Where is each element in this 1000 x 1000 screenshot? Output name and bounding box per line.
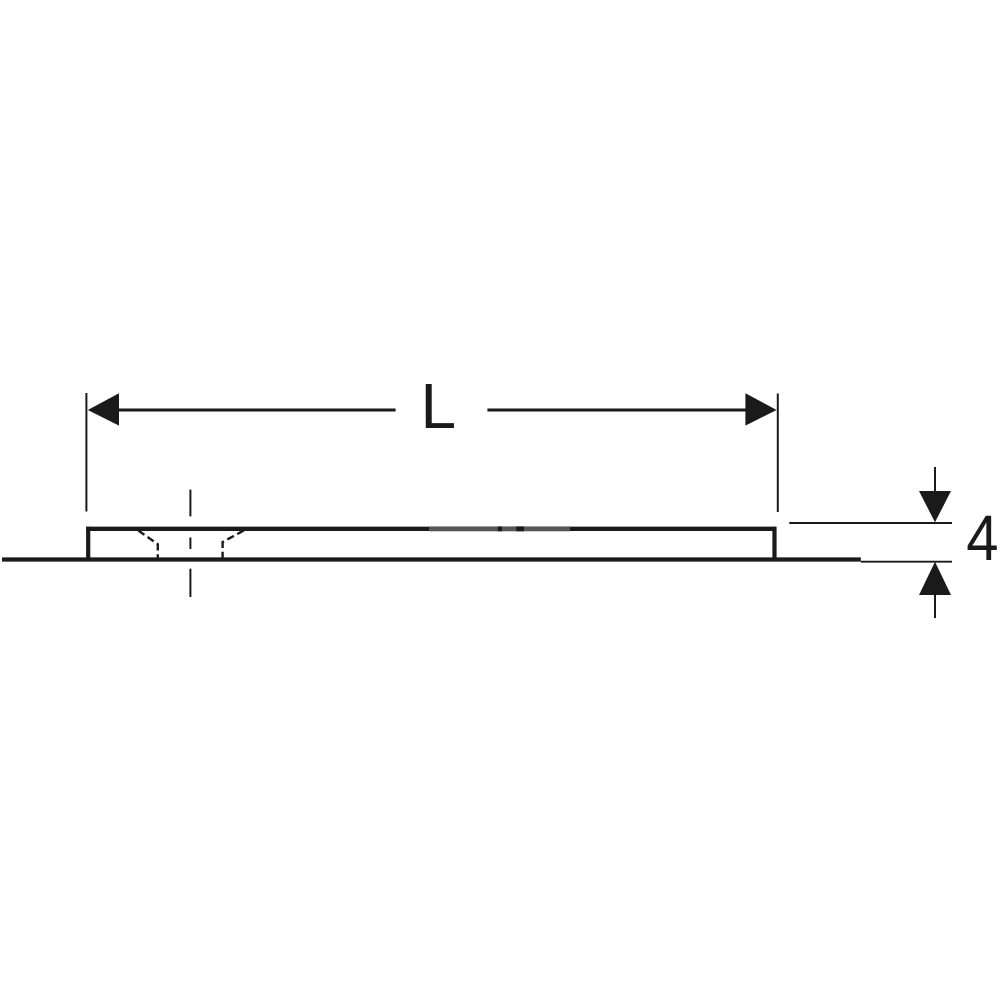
extension line left <box>85 393 87 512</box>
dimension line L left segment <box>117 409 396 412</box>
floor line <box>2 557 861 561</box>
arrowhead down <box>919 491 951 522</box>
watermark gap notch 2 <box>516 526 524 531</box>
arrowhead up <box>919 562 951 595</box>
svg-text:4: 4 <box>966 502 998 574</box>
arrowhead left <box>88 393 119 425</box>
arrowhead right <box>745 393 776 425</box>
height dimension line lower <box>934 594 936 618</box>
tray top edge <box>86 527 776 531</box>
drain centerline lower segment <box>189 569 191 597</box>
height dimension line upper <box>934 467 936 492</box>
dimension line L right segment <box>487 409 747 412</box>
drain centerline upper segment <box>189 490 191 517</box>
svg-text:L: L <box>421 370 457 442</box>
watermark gap notch 1 <box>498 526 502 531</box>
extension line right <box>777 394 779 513</box>
tray left edge <box>86 527 90 560</box>
height extension line bottom <box>861 561 952 563</box>
tray right edge <box>772 527 776 560</box>
watermark band on top edge <box>429 526 570 531</box>
drain funnel right hidden outline <box>223 531 244 559</box>
drain centerline middle segment <box>189 538 191 550</box>
drain funnel left hidden outline <box>138 531 158 559</box>
height extension line top <box>789 522 952 524</box>
